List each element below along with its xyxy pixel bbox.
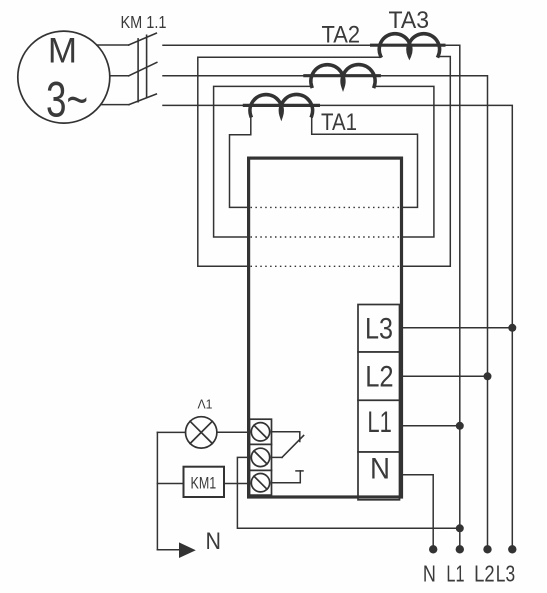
screw terminal box 1: [250, 419, 272, 444]
contactor linkage bar left: [137, 39, 139, 102]
wire N riser to KM1: [157, 483, 183, 485]
wire L1 box to L1 bus: [400, 425, 460, 427]
terminal dot L3: [508, 545, 516, 553]
terminal dot L1: [456, 545, 464, 553]
svg-text:3~: 3~: [46, 72, 88, 128]
junction dot L3: [508, 324, 516, 332]
svg-text:L1: L1: [367, 406, 391, 439]
svg-text:KM 1.1: KM 1.1: [121, 12, 167, 32]
terminal box L2: [358, 352, 400, 400]
TA3 secondary right loop: [402, 55, 451, 266]
screw terminal 3 slash: [254, 476, 267, 489]
wire N box to N terminal: [400, 475, 433, 550]
screw terminal 1 circle: [251, 423, 269, 441]
svg-text:L1: L1: [446, 561, 464, 587]
screw terminal box 3: [250, 470, 272, 495]
wire terminal 2 to L1 drop: [237, 457, 459, 528]
svg-text:N: N: [206, 528, 222, 555]
TA2 secondary left loop: [214, 85, 312, 237]
wire motor to contact phase3: [101, 104, 129, 106]
wire phase2 contact to TA2: [163, 75, 305, 77]
terminal box L3: [358, 305, 400, 353]
svg-text:TA1: TA1: [321, 109, 357, 136]
relay block border: [249, 158, 402, 497]
svg-text:TA3: TA3: [389, 7, 430, 34]
screw terminal 1 slash: [254, 425, 267, 438]
terminal dot L2: [483, 545, 491, 553]
terminal box N: [358, 452, 400, 500]
N arrow head: [179, 542, 196, 558]
contactor KM1.1 contact 3: [129, 94, 156, 105]
wire phase1 after TA3: [444, 45, 460, 549]
svg-text:L2: L2: [474, 561, 495, 587]
svg-text:N: N: [370, 452, 390, 485]
TA1 secondary right loop: [312, 115, 418, 208]
junction dot L1 lower: [456, 524, 464, 532]
wire motor to contact phase1: [97, 44, 129, 46]
junction dot L2: [484, 372, 492, 380]
svg-text:M: M: [48, 31, 77, 70]
CT TA1 coil humps: [250, 94, 313, 115]
contactor KM1.1 contact 2: [129, 62, 157, 75]
dotted internal link TA3: [251, 265, 401, 267]
svg-text:L2: L2: [365, 361, 393, 394]
N riser vertical wire: [156, 432, 158, 549]
CT TA2 coil humps: [311, 65, 375, 87]
svg-text:Λ1: Λ1: [198, 396, 213, 411]
junction dot L1: [456, 422, 464, 430]
CT TA2 primary thick segment: [305, 74, 379, 77]
internal contact wire from terminal 2: [272, 456, 283, 458]
dotted internal link TA2: [251, 236, 401, 238]
lamp A1 circle: [186, 417, 217, 448]
terminal box L1: [358, 400, 400, 452]
wire L2 box to L2 bus: [400, 375, 488, 377]
N arrow stub wire: [157, 549, 179, 551]
TA1 secondary left loop: [230, 115, 251, 208]
lamp A1 cross: [190, 421, 212, 443]
CT TA3 primary thick segment: [372, 44, 444, 47]
internal contact wire from terminal 1: [272, 432, 300, 442]
terminal dot N: [429, 545, 437, 553]
internal contact wire from terminal 3: [272, 471, 301, 483]
svg-text:KM1: KM1: [191, 474, 217, 492]
wire phase3 after TA1 to L3: [318, 105, 512, 549]
svg-text:TA2: TA2: [322, 21, 361, 48]
motor M circle: [18, 31, 110, 123]
contactor linkage bar right: [146, 35, 148, 97]
svg-text:L3: L3: [365, 313, 393, 346]
svg-text:L3: L3: [496, 561, 515, 587]
internal contact movable blade: [282, 436, 304, 458]
wire lamp to N riser: [157, 431, 185, 433]
screw terminal 2 circle: [251, 448, 269, 466]
screw terminal box 2: [250, 444, 272, 470]
internal contact seat tick: [296, 470, 303, 472]
screw terminal 2 slash: [254, 451, 267, 464]
wire lamp to terminal 1: [217, 431, 250, 433]
wire phase3 contact to TA1: [163, 104, 244, 106]
wire motor to contact phase2: [110, 75, 129, 77]
wire L3 box to L3 bus: [400, 327, 512, 329]
wire phase2 after TA2 to L2: [379, 76, 487, 550]
dotted internal link TA1: [251, 206, 401, 208]
CT TA3 coil humps: [379, 34, 439, 56]
wire KM1 to terminal 3: [224, 483, 250, 485]
svg-text:N: N: [423, 561, 436, 587]
CT TA1 primary thick segment: [244, 104, 318, 107]
TA2 secondary right loop: [374, 85, 434, 237]
wire phase1 contact to L1 corner: [163, 44, 372, 46]
screw terminal 3 circle: [251, 474, 269, 492]
TA3 secondary left loop: [198, 55, 381, 266]
contactor KM1.1 contact 1: [129, 33, 157, 45]
contactor coil KM1 box: [184, 467, 225, 497]
